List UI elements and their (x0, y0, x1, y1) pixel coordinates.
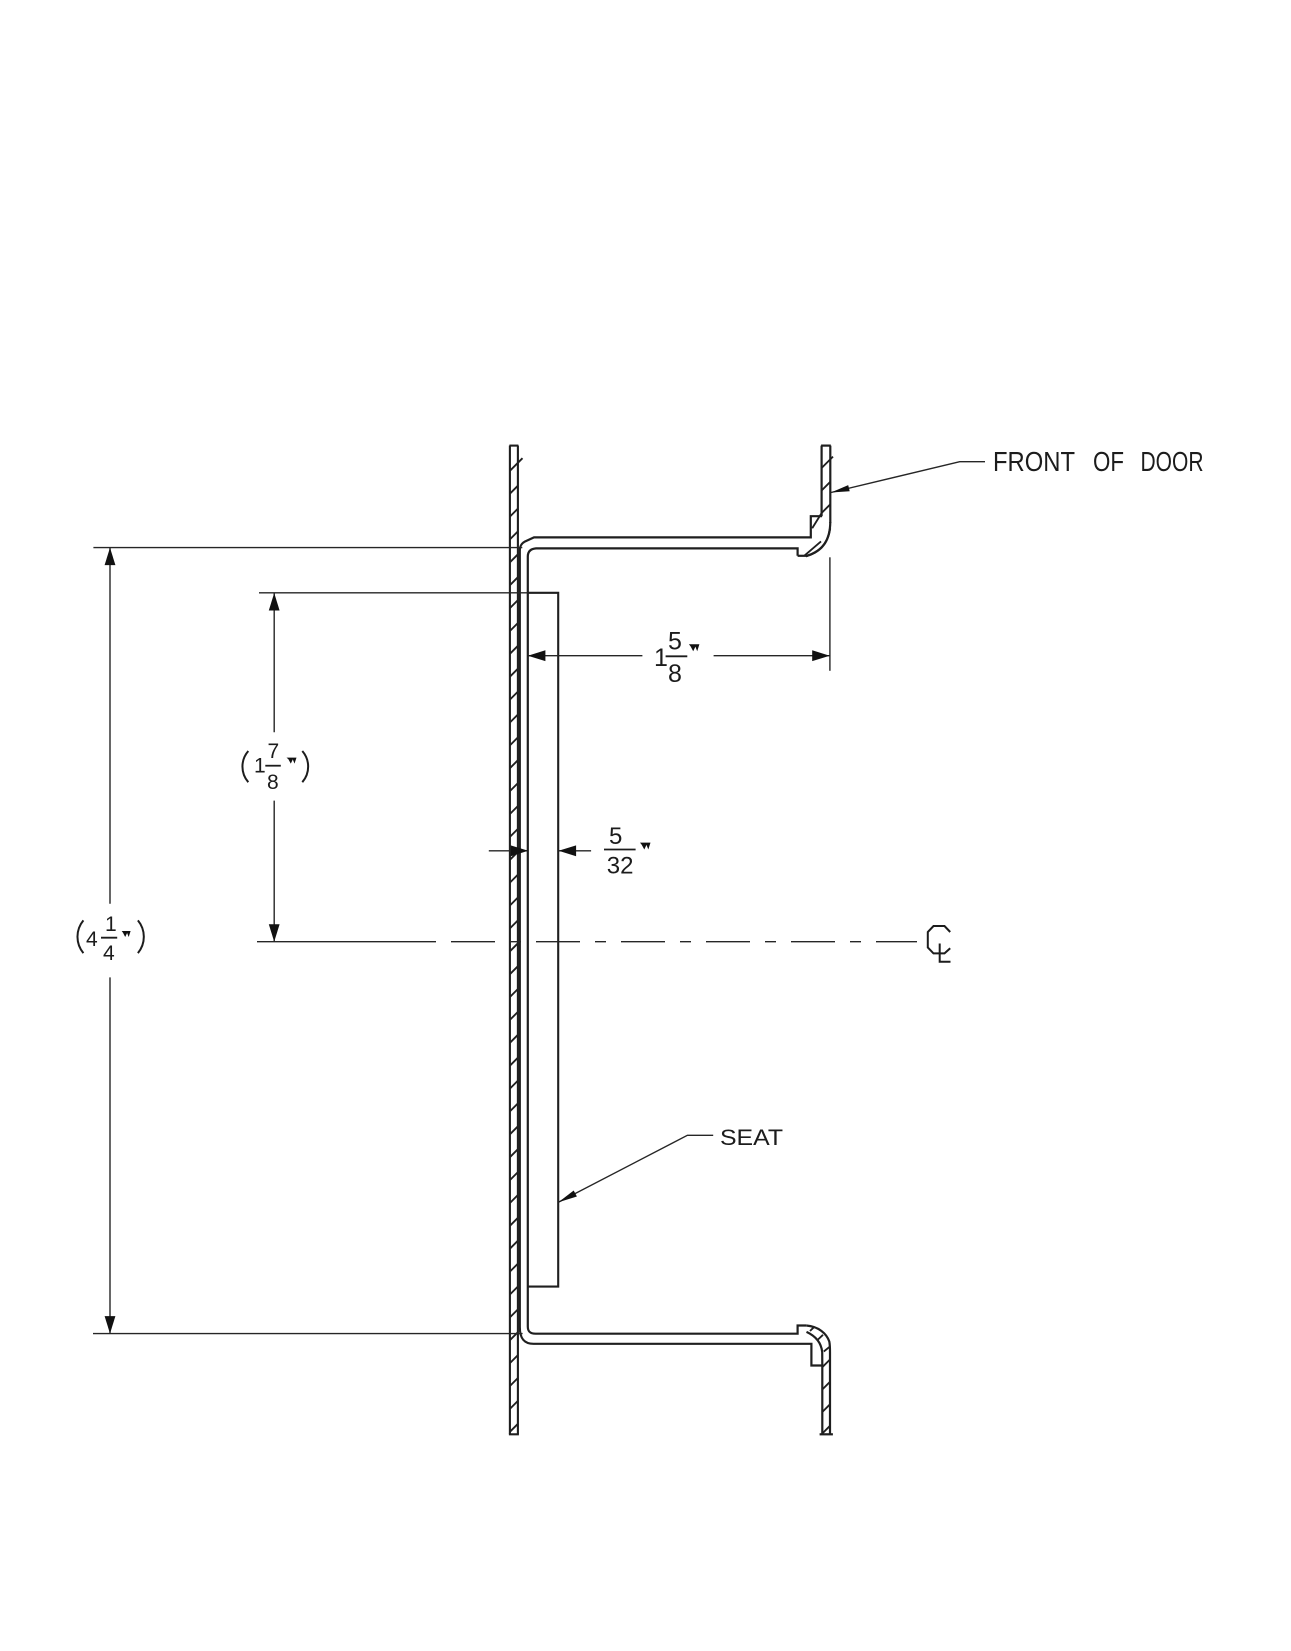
hem curl (bottom) inner arc (807, 1332, 823, 1366)
svg-text:1: 1 (654, 644, 668, 672)
ditto marks 1 5/8 (689, 644, 700, 651)
seat plate (528, 593, 558, 1287)
arrowhead 1 7/8 top (269, 593, 280, 611)
dimension text 1 5/8 (654, 628, 682, 689)
leader line FRONT OF DOOR (831, 462, 985, 493)
svg-text:OF: OF (1093, 446, 1124, 477)
extension line bottom (4 1/4) (93, 1333, 523, 1335)
wall hatching (510, 458, 523, 1432)
hem curl (bottom) outer arc (806, 1326, 830, 1353)
svg-text:4: 4 (103, 942, 115, 965)
hem curl (top leaf) (806, 522, 830, 556)
extension line top (1 7/8) (259, 592, 528, 594)
svg-text:5: 5 (609, 823, 622, 850)
svg-text:5: 5 (668, 628, 682, 656)
frame channel outer line (520, 516, 823, 1365)
dimension + extension lines (93, 462, 985, 1334)
centerline symbol CL (928, 926, 951, 962)
dimension 1 7/8 vertical line (273, 593, 275, 942)
dimension 1 5/8 line (528, 655, 830, 657)
hatching of bottom door plate (810, 1327, 830, 1434)
svg-text:8: 8 (668, 660, 682, 688)
svg-text:32: 32 (607, 853, 634, 880)
arrowhead FRONT OF DOOR leader (831, 485, 850, 492)
parens (4 1/4) (77, 920, 83, 953)
svg-text:FRONT: FRONT (993, 446, 1075, 477)
centerline (257, 941, 917, 943)
arrowhead 4 1/4 top (105, 548, 116, 566)
front-of-door plate (bottom, hatched) (806, 1326, 833, 1435)
extension line right (1 5/8) (829, 557, 831, 671)
arrowhead 5/32 right (559, 845, 577, 856)
wall section (hatched vertical plate) (509, 446, 519, 1435)
arrowhead 1 7/8 bottom (269, 924, 280, 942)
front-of-door plate (top, hatched) (806, 446, 831, 557)
dimension text (4 1/4) (86, 913, 117, 965)
dimension 4 1/4 vertical line (109, 548, 111, 1334)
dimension 5/32 lines (489, 850, 591, 852)
dimension text (1 7/8) (254, 740, 279, 794)
svg-text:SEAT: SEAT (720, 1125, 783, 1150)
svg-text:1: 1 (105, 913, 117, 936)
dimension text 5/32 (607, 823, 634, 880)
extension line top (4 1/4) (93, 547, 522, 549)
arrowhead 5/32 left (511, 845, 529, 856)
svg-text:1: 1 (254, 755, 266, 778)
frame channel inner line (528, 548, 807, 1333)
leader line SEAT (558, 1135, 713, 1202)
arrowhead 4 1/4 bottom (105, 1316, 116, 1334)
arrowhead 1 5/8 left (528, 650, 546, 661)
svg-text:DOOR: DOOR (1141, 446, 1204, 477)
hatching of top door plate (805, 457, 834, 556)
svg-text:7: 7 (268, 740, 280, 763)
svg-text:4: 4 (86, 928, 98, 951)
arrowhead 1 5/8 right (812, 650, 830, 661)
arrowhead SEAT leader (558, 1191, 577, 1203)
svg-text:8: 8 (267, 771, 279, 794)
